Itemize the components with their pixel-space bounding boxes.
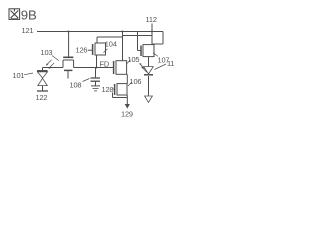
wire: Q107 source to LED [148,57,150,67]
svg-text:108: 108 [70,81,82,90]
svg-text:103: 103 [41,48,53,57]
svg-text:121: 121 [22,26,34,35]
LED D11 [139,63,153,75]
transistor Q103 (transfer gate) [63,57,74,78]
transistor Q104 (reset) [93,37,123,68]
svg-text:129: 129 [121,110,133,119]
transistor Q106 (select) [113,84,127,95]
transistor Q107 (drive) [141,45,154,57]
svg-text:101: 101 [13,71,25,80]
svg-text:104: 104 [105,40,117,49]
node FD junction [95,66,97,68]
svg-text:112: 112 [146,15,157,24]
svg-text:105: 105 [128,55,140,64]
ground terminal 122 (bar) [37,90,48,92]
svg-text:128: 128 [102,85,114,94]
ground (triangle) under LED [145,96,153,102]
wire: FD to capacitor [95,68,97,78]
wire: gate feed of Q107 [138,32,142,51]
wire: capacitor to ground [95,82,97,86]
junction at 112/bus [151,30,153,32]
arrowhead output 129 [125,104,130,109]
photodiode D101 [37,60,54,86]
transistor Q105 (amplifier) [114,61,128,84]
svg-text:106: 106 [130,77,142,86]
svg-text:FD: FD [100,60,110,69]
wire: Q106 output to vertical signal line [113,93,128,105]
svg-text:9B: 9B [21,8,37,23]
junction at bus/Q103 gate [68,30,70,32]
wire: FD net Q103 to Q105 gate [74,67,114,69]
capacitor C108 [91,78,101,81]
svg-text:122: 122 [36,93,48,102]
wire: power/control bus 121 [37,31,163,33]
svg-text:11: 11 [167,59,174,68]
wire: gate riser of Q103 to bus [68,32,70,57]
ground under capacitor [91,86,100,91]
figure title 図9B [9,9,20,20]
wire: power drop to amp transistor [122,32,124,61]
wire: bus right corner down [152,32,163,45]
wire: PD anode to ground terminal 122 [42,86,44,91]
junction at bus/power drop [121,30,123,32]
svg-text:126: 126 [76,46,88,55]
wire: LED to ground [148,76,150,96]
wire: 112 stub [151,24,153,45]
wire: power branch to reset/drive [123,35,153,37]
wire: PD to Q103 [43,68,64,71]
